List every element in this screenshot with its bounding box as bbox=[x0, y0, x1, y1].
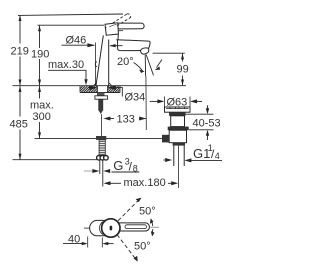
Ø46 right arrow bbox=[110, 45, 123, 47]
svg-text:Ø34: Ø34 bbox=[125, 92, 146, 104]
centerline tick left bbox=[84, 227, 90, 229]
faucet head bbox=[103, 23, 118, 40]
Ø34 arrows in deck bbox=[88, 85, 122, 96]
deck slab hatched bbox=[80, 86, 120, 93]
svg-text:4: 4 bbox=[215, 151, 220, 161]
lever raised (dashed) bbox=[113, 14, 131, 26]
swing line upper (dashed) bbox=[118, 198, 142, 221]
ref line max300 end / pop-up rod line bbox=[35, 137, 163, 139]
ref line 485 end bbox=[13, 159, 97, 161]
tailpipe bbox=[174, 146, 184, 188]
svg-text:99: 99 bbox=[177, 64, 189, 76]
dim 190 bbox=[38, 25, 41, 85]
svg-text:219: 219 bbox=[11, 46, 29, 58]
supply pipe centerline bbox=[100, 114, 102, 136]
centerline right bbox=[151, 226, 160, 228]
40-53 dim bbox=[185, 105, 214, 140]
swing arcs at lever tip bbox=[150, 218, 155, 236]
20° stream lines bbox=[134, 54, 163, 76]
G3/8 arrows bbox=[84, 169, 110, 173]
dim 219 bbox=[19, 15, 22, 86]
svg-text:485: 485 bbox=[10, 119, 28, 131]
40 dim bbox=[63, 237, 114, 248]
faucet shank below deck bbox=[95, 93, 108, 115]
dim max.300 bbox=[38, 86, 41, 138]
ref line 190 level bbox=[38, 24, 105, 26]
Ø63 dim bbox=[150, 97, 202, 107]
ref line top (219 level) bbox=[18, 14, 123, 15]
svg-text:max.: max. bbox=[30, 100, 54, 112]
lever slot bbox=[125, 225, 147, 229]
133 dim bbox=[103, 117, 146, 121]
svg-text:300: 300 bbox=[33, 111, 51, 123]
max.180 dim bbox=[104, 181, 179, 185]
drain upper tube bbox=[171, 116, 185, 127]
svg-text:max.180: max.180 bbox=[124, 177, 166, 189]
outlet extension line down to 133 dim bbox=[145, 76, 147, 130]
center dot bbox=[110, 226, 113, 231]
lock nut band bbox=[168, 127, 189, 131]
lever (rest position) bbox=[118, 23, 144, 31]
svg-text:50°: 50° bbox=[134, 241, 151, 253]
svg-text:Ø46: Ø46 bbox=[66, 35, 87, 47]
rod guide fitting bbox=[96, 136, 106, 140]
Ø46 ext line left bbox=[94, 43, 96, 86]
svg-text:190: 190 bbox=[31, 49, 49, 61]
svg-text:G: G bbox=[113, 158, 123, 173]
svg-text:max.30: max.30 bbox=[48, 59, 84, 71]
deck top line bbox=[13, 85, 187, 87]
dim 485 bbox=[19, 86, 22, 160]
99 dim bbox=[153, 52, 185, 54]
seal band bbox=[169, 112, 186, 116]
supply pipe bbox=[99, 160, 101, 174]
rod port knob bbox=[162, 135, 169, 143]
threaded pipe bbox=[99, 140, 105, 155]
spout capsule bbox=[90, 220, 106, 235]
swing line lower (dashed) bbox=[117, 235, 138, 262]
lever bar bbox=[119, 223, 150, 231]
body circle bbox=[102, 219, 120, 237]
G1 1/4 thread arrows bbox=[164, 158, 192, 162]
svg-text:20°: 20° bbox=[117, 56, 134, 68]
faucet body bbox=[94, 39, 111, 86]
collar bbox=[173, 143, 185, 146]
drain body bbox=[169, 130, 186, 143]
drain flange bbox=[165, 107, 191, 112]
svg-text:40: 40 bbox=[68, 233, 80, 245]
spout bbox=[116, 40, 150, 54]
svg-text:40-53: 40-53 bbox=[193, 118, 221, 130]
svg-text:50°: 50° bbox=[139, 206, 156, 218]
coupling nut bbox=[97, 156, 109, 161]
svg-text:133: 133 bbox=[117, 114, 135, 126]
